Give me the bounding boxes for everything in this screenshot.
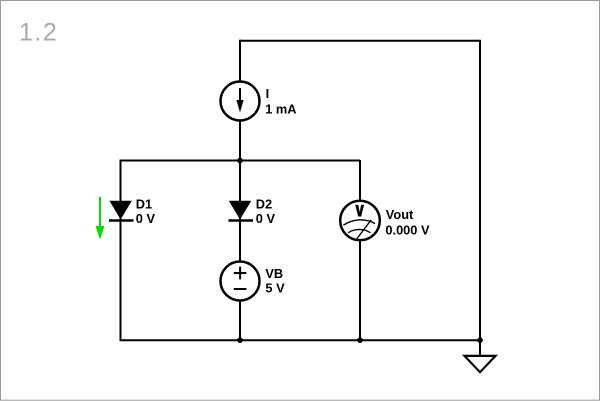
junction dot Vout branch / bottom row (357, 337, 363, 343)
wire top from current source to right rail (240, 40, 480, 42)
svg-text:Vout: Vout (386, 207, 414, 222)
wire Vout branch (359, 160, 361, 340)
svg-text:0 V: 0 V (256, 211, 276, 226)
svg-text:D1: D1 (136, 197, 152, 212)
wire D2/VB branch (239, 160, 241, 340)
svg-text:I: I (266, 86, 270, 101)
wire middle node row (120, 160, 360, 162)
ground symbol (465, 356, 496, 372)
diode D1 (109, 201, 134, 221)
svg-text:D2: D2 (256, 197, 272, 212)
label D2 0 V (256, 197, 276, 227)
label I 1 mA (265, 86, 296, 117)
svg-text:0 V: 0 V (136, 211, 156, 226)
svg-text:VB: VB (265, 266, 283, 281)
wire ground stem (479, 340, 481, 356)
label VB 5 V (265, 266, 285, 296)
svg-text:1.2: 1.2 (19, 19, 58, 47)
junction dot right rail / bottom row (477, 337, 483, 343)
voltmeter Vout (340, 201, 380, 241)
voltage source VB (221, 262, 260, 301)
wire bottom row (120, 339, 481, 341)
wire current source branch (239, 40, 241, 160)
label D1 0 V (136, 197, 156, 227)
node junction dot at current source / middle row (237, 158, 243, 164)
label Vout 0.000 V (385, 207, 430, 237)
svg-text:0.000 V: 0.000 V (385, 222, 430, 237)
current source I (221, 82, 260, 121)
diode D2 (229, 201, 254, 221)
wire D1 branch (120, 160, 122, 341)
wire right rail (479, 40, 481, 340)
junction dot D2 branch / bottom row (237, 337, 243, 343)
svg-text:5 V: 5 V (265, 281, 285, 296)
svg-text:1 mA: 1 mA (265, 102, 296, 117)
green current arrow at D1 (96, 197, 105, 240)
